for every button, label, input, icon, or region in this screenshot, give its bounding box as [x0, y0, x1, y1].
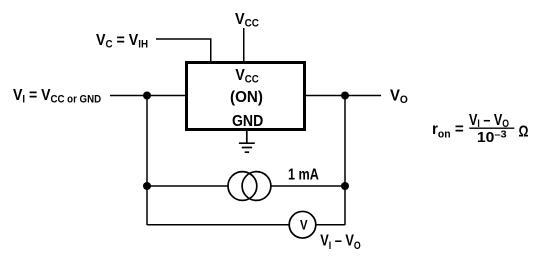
svg-text:ron =: ron =: [432, 120, 464, 140]
svg-text:VCC: VCC: [235, 11, 259, 30]
svg-text:VI = VCC or GND: VI = VCC or GND: [13, 86, 102, 105]
svg-text:VI – VO: VI – VO: [320, 232, 361, 252]
svg-text:GND: GND: [232, 112, 263, 130]
svg-text:10–3: 10–3: [477, 129, 507, 146]
svg-text:V: V: [300, 218, 308, 233]
svg-text:Ω: Ω: [519, 123, 529, 141]
svg-text:VO: VO: [390, 87, 408, 106]
svg-text:(ON): (ON): [230, 88, 263, 105]
svg-text:VC = VIH: VC = VIH: [96, 31, 148, 50]
svg-text:1 mA: 1 mA: [288, 166, 319, 184]
